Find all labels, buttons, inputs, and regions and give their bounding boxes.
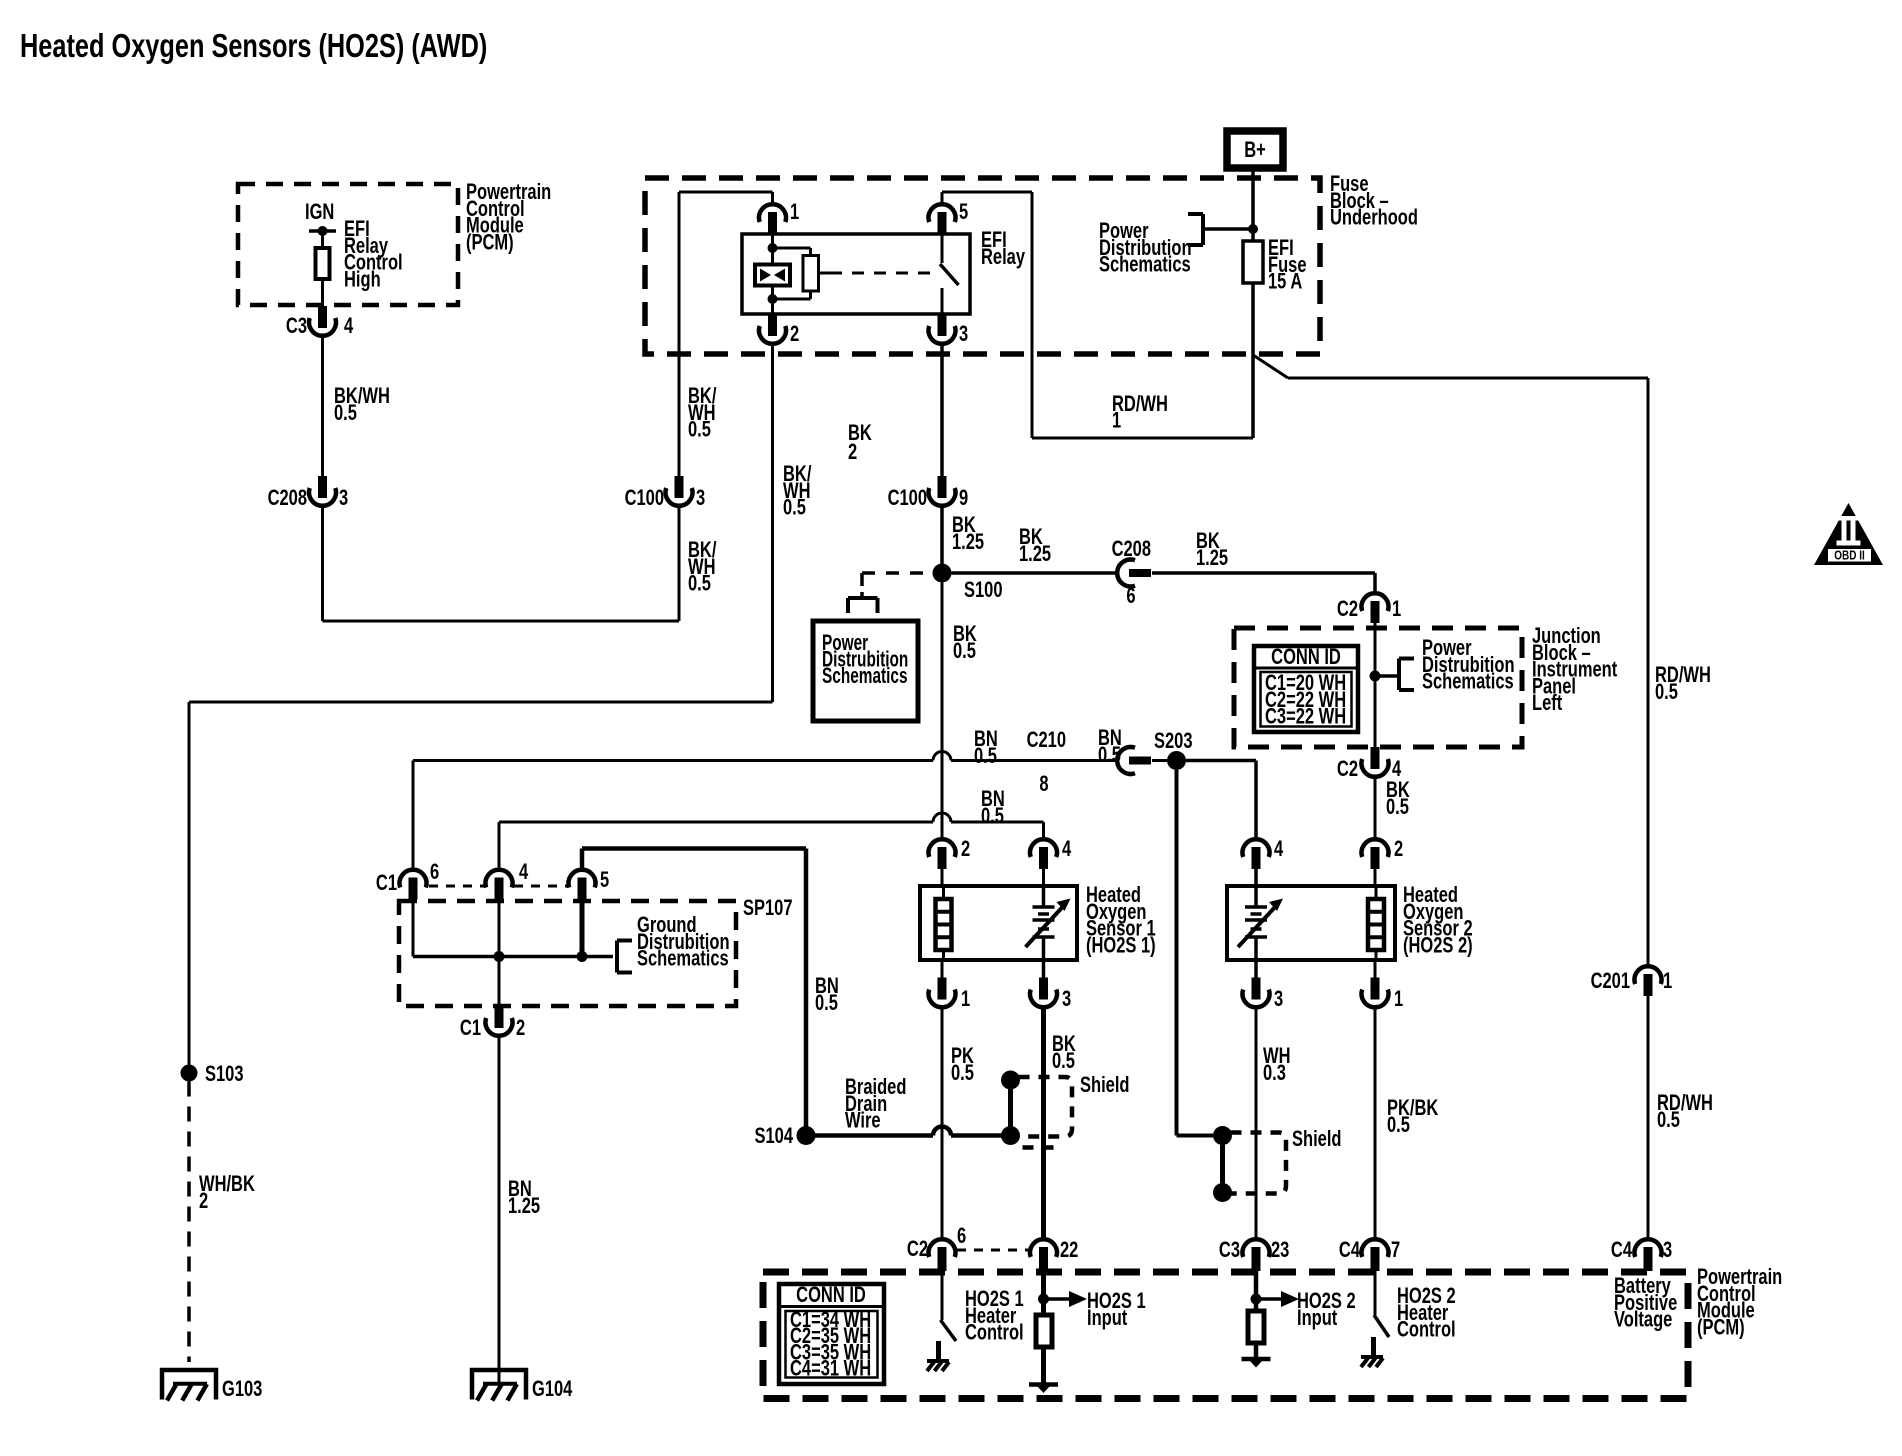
svg-text:C3=22 WH: C3=22 WH [1265,704,1346,729]
svg-text:0.5: 0.5 [1657,1108,1680,1133]
wire relay pin 2 down, BK/WH 0.5 [771,344,774,703]
connector pin 22 [1030,1239,1057,1257]
svg-text:C4=31 WH: C4=31 WH [790,1356,871,1381]
svg-text:Schematics: Schematics [1099,252,1191,277]
connector HO2S1 pin 1 [941,960,944,978]
dashed link C2-6 to pin 22 [957,1249,1028,1252]
svg-text:C3: C3 [286,314,307,339]
svg-text:C2: C2 [1337,757,1358,782]
wire S103 to G103, WH/BK 2 dashed [187,1082,191,1363]
svg-text:7: 7 [1391,1238,1400,1263]
svg-text:4: 4 [1274,837,1283,862]
svg-text:2: 2 [1394,837,1403,862]
table CONN ID (PCM) [779,1284,884,1384]
wire C1-2 to G104, BN 1.25 [498,1036,501,1384]
svg-text:(HO2S 2): (HO2S 2) [1403,933,1473,958]
svg-text:0.5: 0.5 [1386,795,1409,820]
svg-text:C1: C1 [376,871,397,896]
svg-text:3: 3 [1062,987,1071,1012]
wire C2-1 through junction block [1374,623,1377,747]
wire across to S103 branch [189,701,773,704]
reference bracket Power Distrubition Schematics [1397,659,1401,691]
svg-text:Relay: Relay [981,245,1025,270]
svg-text:C1: C1 [460,1016,481,1041]
svg-text:Schematics: Schematics [637,946,729,971]
wire HO2S1 pin1 down PK 0.5 [941,1007,944,1240]
svg-text:5: 5 [959,200,968,225]
signal ground HO2S2 input [1242,1357,1271,1362]
wire relay pin 5 to fuse (RD/WH 1) [942,191,1032,194]
reference box Power Distrubition Schematics [813,621,918,721]
svg-text:2: 2 [516,1016,525,1041]
wire C2-4 to HO2S2 pin 2, BK 0.5 [1374,777,1377,840]
ground G104 [472,1370,526,1400]
node junction tap [1370,671,1381,682]
wire C208-6 to C2-1, BK 1.25 [1152,571,1375,575]
wire S203 down to shield 2 [1175,770,1179,1136]
resistor EFI Relay Control High [316,248,330,279]
HO2S2 heater [1245,905,1267,909]
connector HO2S2 pin 4 [1243,839,1270,857]
svg-text:Underhood: Underhood [1330,205,1418,230]
wire pin 22 HO2S1 input [1041,1271,1046,1383]
wire resistor to C3 pin 4 [321,279,324,306]
svg-text:C4: C4 [1611,1238,1632,1263]
ground G103 [162,1370,216,1400]
wire C3-4 to C208-3, BK/WH 0.5 [321,336,324,477]
svg-text:C100: C100 [625,486,665,511]
signal ground HO2S1 input [1029,1382,1058,1387]
connector relay pin 3 [929,326,956,344]
connector HO2S1 pin 4 [1030,839,1057,857]
svg-text:0.5: 0.5 [953,639,976,664]
svg-text:0.5: 0.5 [1098,743,1121,768]
connector HO2S1 pin 3 [1042,960,1046,978]
svg-text:6: 6 [430,860,439,885]
svg-text:0.5: 0.5 [1052,1049,1075,1074]
svg-text:G103: G103 [222,1377,263,1402]
relay EFI Relay box [742,234,970,314]
fuse EFI Fuse 15 A [1243,241,1263,283]
connector C2 pin 1 [1361,593,1388,611]
connector relay pin 5 [941,192,944,205]
node fuse tap junction [1248,224,1258,234]
svg-text:23: 23 [1271,1238,1290,1263]
svg-text:0.5: 0.5 [981,804,1004,829]
svg-text:Left: Left [1532,691,1563,716]
svg-text:S203: S203 [1154,729,1193,754]
svg-text:CONN ID: CONN ID [796,1283,866,1308]
connector C1 pin 6 [400,870,427,888]
svg-text:Schematics: Schematics [822,664,908,688]
dashed link C1 pins [429,885,484,888]
wire C208-3 down and right to C100-3 [321,506,324,622]
HO2S1 heater [1033,905,1055,909]
svg-text:1.25: 1.25 [1196,546,1228,571]
table CONN ID (junction block) [1254,646,1358,732]
svg-text:Wire: Wire [845,1108,881,1133]
HO2S2 sensor element [1368,899,1384,950]
module Powertrain Control Module (PCM) dashed box [763,1272,1688,1399]
connector C1 pin 5 [569,870,596,888]
svg-text:4: 4 [1062,837,1071,862]
connector relay pin 1 [771,192,774,205]
wire C3-23 HO2S2 input [1254,1271,1259,1357]
power symbol B+ [1227,131,1283,168]
svg-text:Heated Oxygen Sensors (HO2S) (: Heated Oxygen Sensors (HO2S) (AWD) [20,28,487,65]
svg-text:0.5: 0.5 [974,744,997,769]
connector C3 pin 23 [1243,1239,1270,1257]
svg-text:0.5: 0.5 [1655,680,1678,705]
svg-text:Shield: Shield [1292,1127,1341,1152]
svg-text:8: 8 [1039,772,1048,797]
svg-text:IGN: IGN [305,200,334,225]
wire BN row upper (BN 0.5) [413,759,933,762]
svg-text:9: 9 [959,486,968,511]
svg-text:Voltage: Voltage [1614,1307,1673,1332]
svg-text:4: 4 [519,860,528,885]
wire fuse block to C201, RD/WH 0.5 [1253,355,1288,378]
module PCM (top) dashed box [238,184,458,305]
svg-text:Control: Control [1397,1317,1456,1342]
svg-text:C201: C201 [1591,969,1631,994]
svg-text:C2: C2 [1337,597,1358,622]
svg-text:0.5: 0.5 [688,571,711,596]
connector C100 pin 3 [666,488,693,506]
svg-text:0.5: 0.5 [951,1061,974,1086]
connector C201 pin 1 [1635,966,1662,984]
switch HO2S1 heater control [941,1271,944,1320]
splice S103 [181,1065,198,1082]
svg-text:0.5: 0.5 [334,401,357,426]
svg-text:3: 3 [1274,987,1283,1012]
svg-text:1.25: 1.25 [1019,542,1051,567]
connector relay pin 2 [759,326,786,344]
connector C4 pin 7 [1362,1239,1389,1257]
connector C208 pin 3 [309,488,336,506]
reference dashed link to Power Distrubition Schematics [862,571,931,575]
svg-text:22: 22 [1060,1238,1079,1263]
svg-text:1: 1 [1663,969,1672,994]
connector HO2S2 pin 3 [1254,960,1258,978]
relay coil [771,234,774,248]
svg-text:C208: C208 [1112,537,1152,562]
connector HO2S2 pin 1 [1374,960,1377,978]
svg-text:3: 3 [339,486,348,511]
svg-text:C100: C100 [888,486,928,511]
svg-text:SP107: SP107 [743,896,793,921]
connector C208 pin 6 [1117,560,1135,587]
connector C4 pin 3 [1635,1239,1662,1257]
connector C100 pin 9 [929,488,956,506]
svg-text:1: 1 [961,987,970,1012]
svg-text:0.5: 0.5 [1387,1113,1410,1138]
svg-text:CONN ID: CONN ID [1271,645,1341,670]
splice S203 [1167,751,1186,770]
svg-text:C3: C3 [1219,1238,1240,1263]
svg-text:1.25: 1.25 [508,1194,540,1219]
resistor HO2S2 input [1248,1311,1264,1343]
svg-text:1: 1 [1392,597,1401,622]
svg-text:0.5: 0.5 [815,991,838,1016]
svg-text:OBD II: OBD II [1834,550,1865,563]
svg-text:1.25: 1.25 [952,530,984,555]
wire C210 to S203, BN 0.5 [1152,759,1168,762]
svg-text:0.5: 0.5 [688,417,711,442]
connector HO2S2 pin 2 [1361,839,1388,857]
svg-text:S104: S104 [754,1124,793,1149]
switch HO2S2 heater control [1374,1271,1377,1315]
svg-text:0.3: 0.3 [1263,1061,1286,1086]
svg-text:4: 4 [344,314,353,339]
connector C2 pin 4 [1361,759,1388,777]
connector HO2S1 pin 2 [929,839,956,857]
symbol OBD II [1814,503,1883,565]
relay actuation dashed link [819,272,831,275]
sensor Heated Oxygen Sensor 1 (HO2S 1) box [920,886,1077,960]
reference bracket Power Distribution Schematics [1201,214,1205,245]
splice S104 [797,1126,816,1145]
wire BN row lower (BN 0.5) [499,821,933,824]
wire C100-9 to S100, BK 1.25 [940,506,944,565]
reference bracket Ground Distrubition Schematics [615,941,619,973]
svg-text:S103: S103 [205,1062,244,1087]
svg-text:(PCM): (PCM) [466,230,514,255]
svg-text:B+: B+ [1244,138,1266,163]
connector C1 pin 4 [485,870,512,888]
svg-text:1: 1 [1112,408,1121,433]
wire C201-1 to C4-3, RD/WH 0.5 [1647,996,1650,1240]
wire S100 right BK 1.25 row [952,571,1118,575]
connector C2 pin 6 [929,1239,956,1257]
module Fuse Block - Underhood dashed box [645,178,1320,354]
HO2S1 sensor element [936,899,952,950]
svg-text:Input: Input [1087,1306,1128,1331]
svg-text:Control: Control [965,1320,1024,1345]
connector C3 pin 4 [309,318,336,336]
svg-text:1: 1 [790,200,799,225]
svg-text:6: 6 [1126,584,1135,609]
svg-text:C208: C208 [268,486,308,511]
wire HO2S2 pin3 down WH 0.3 through shield [1255,1007,1258,1240]
svg-text:Schematics: Schematics [1422,669,1514,694]
wire S203 to HO2S2 pin 4 [1186,759,1256,763]
splice S100 [933,564,952,583]
wire relay pin 3 down, BK 2 [940,344,944,477]
connector C1 pin 2 [485,1018,512,1036]
svg-text:G104: G104 [532,1377,573,1402]
svg-text:15 A: 15 A [1268,269,1302,294]
svg-text:S100: S100 [964,578,1003,603]
svg-text:(HO2S 1): (HO2S 1) [1086,933,1156,958]
svg-text:3: 3 [959,322,968,347]
svg-text:C4: C4 [1339,1238,1360,1263]
wire HO2S2 pin1 down PK/BK 0.5 [1374,1007,1377,1240]
connector C210 pin 8 [1117,747,1135,774]
svg-text:0.5: 0.5 [783,495,806,520]
svg-text:C2: C2 [907,1237,928,1262]
wire C1-5 braided drain (BN 0.5) [580,849,585,871]
wire S104 to shield [815,1133,933,1138]
splice pack SP107 dashed box [399,901,736,1006]
svg-text:High: High [344,267,381,292]
svg-text:3: 3 [1663,1238,1672,1263]
svg-text:2: 2 [199,1189,208,1214]
module Junction Block - Instrument Panel Left dashed box [1234,628,1522,747]
wires inside SP107 [412,900,415,957]
svg-text:Input: Input [1297,1306,1338,1331]
shield (HO2S 1) [1001,1071,1020,1090]
wire B+ down through EFI fuse [1251,168,1255,438]
shield (HO2S 2) [1213,1126,1232,1145]
wire IGN to resistor [321,231,324,248]
svg-text:6: 6 [957,1224,966,1249]
relay switch [941,234,944,263]
svg-text:3: 3 [696,486,705,511]
svg-text:1: 1 [1394,987,1403,1012]
svg-text:2: 2 [790,322,799,347]
resistor HO2S1 input [1036,1315,1052,1347]
wire S100 down, BK 0.5 [941,583,944,840]
svg-text:5: 5 [600,868,609,893]
svg-text:Shield: Shield [1080,1073,1129,1098]
svg-text:(PCM): (PCM) [1697,1315,1745,1340]
svg-text:2: 2 [848,440,857,465]
svg-text:2: 2 [961,837,970,862]
relay armature [773,247,811,250]
sensor Heated Oxygen Sensor 2 (HO2S 2) box [1227,886,1395,960]
wire C100-3 up into fuse block, BK/WH 0.5 [678,192,681,476]
svg-text:C210: C210 [1027,728,1067,753]
wire HO2S1 pin3 down BK 0.5 through shield [1041,1007,1046,1240]
